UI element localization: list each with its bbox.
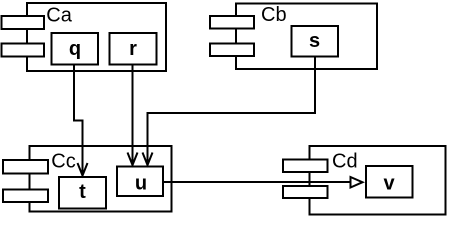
component Cb body bbox=[236, 4, 377, 70]
svg-text:v: v bbox=[383, 173, 395, 195]
svg-text:Cd: Cd bbox=[332, 151, 358, 173]
wire s to u bbox=[148, 57, 316, 166]
component Cc icon rect 2 bbox=[3, 190, 48, 203]
svg-text:q: q bbox=[69, 38, 81, 60]
component Cd icon rect 2 bbox=[283, 186, 328, 198]
arrowhead s into u bbox=[143, 153, 153, 166]
arrowhead r into u bbox=[128, 153, 138, 166]
box v bbox=[366, 166, 413, 198]
component Cb icon rect 1 bbox=[210, 16, 254, 29]
box u bbox=[117, 167, 163, 197]
svg-text:r: r bbox=[129, 38, 137, 60]
svg-text:t: t bbox=[79, 181, 86, 203]
component Cb icon rect 2 bbox=[210, 44, 254, 57]
arrowhead into t bbox=[78, 163, 88, 176]
component Cc icon rect 1 bbox=[3, 160, 48, 174]
component Ca body bbox=[27, 3, 166, 71]
svg-text:Cb: Cb bbox=[261, 4, 287, 26]
component Ca icon rect 2 bbox=[2, 44, 45, 57]
wire q to t bbox=[74, 65, 83, 176]
wire r to u bbox=[132, 65, 134, 166]
box t bbox=[59, 177, 106, 209]
component Cd body bbox=[310, 146, 446, 215]
svg-text:Ca: Ca bbox=[46, 4, 72, 26]
svg-text:u: u bbox=[135, 173, 147, 195]
svg-text:s: s bbox=[309, 30, 320, 52]
component Ca icon rect 1 bbox=[2, 16, 45, 29]
box r bbox=[110, 33, 157, 65]
wire u to v bbox=[164, 181, 351, 183]
component Cc body bbox=[30, 146, 172, 212]
svg-text:Cc: Cc bbox=[51, 151, 75, 173]
component Cd icon rect 1 bbox=[283, 160, 328, 173]
open triangle arrowhead at v bbox=[351, 177, 363, 188]
box s bbox=[292, 26, 339, 57]
box q bbox=[52, 33, 99, 65]
